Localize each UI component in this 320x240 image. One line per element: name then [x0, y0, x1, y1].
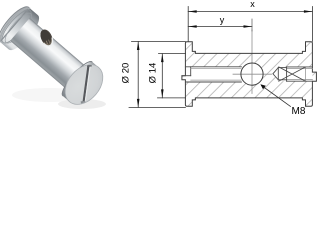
centerline horizontal: [233, 73, 272, 75]
centerline vertical: [251, 30, 253, 94]
bore band white: [185, 67, 251, 82]
svg-text:Ø 20: Ø 20: [121, 63, 132, 84]
section drawing: [129, 7, 316, 108]
y dim right ext stub: [251, 19, 253, 31]
photo of sleeve part: [0, 3, 110, 112]
bore thread crest lines: [191, 68, 241, 70]
shadow: [12, 88, 88, 102]
dimension y: [188, 26, 252, 28]
big head cylinder side: [63, 62, 99, 102]
thread hole white: [273, 68, 278, 80]
part silhouette hatched: [182, 42, 317, 106]
svg-text:M8: M8: [292, 106, 306, 117]
junction ring: [66, 66, 89, 92]
part outline: [182, 42, 317, 106]
head face lines across hole: [305, 67, 307, 81]
dim 20: [137, 42, 139, 108]
cross hole circle white: [241, 63, 263, 85]
svg-text:x: x: [250, 0, 255, 9]
svg-text:y: y: [220, 15, 225, 25]
cross hole: [38, 28, 55, 48]
dim 14: [161, 54, 163, 98]
thread cross lines: [279, 67, 306, 81]
barrel: [10, 18, 88, 91]
right hole thread crest lines: [287, 68, 313, 70]
cross hole circle: [241, 63, 263, 85]
bore lines: [185, 66, 241, 68]
far head (back): [0, 3, 44, 55]
extension lines top: [187, 7, 189, 42]
slot on face (screen coords, clipped to face): [81, 61, 92, 106]
leader M8: [262, 86, 291, 107]
big head face: [58, 57, 111, 111]
dimension x: [188, 11, 312, 13]
slot step in left head: [190, 67, 192, 76]
drill cone: [273, 68, 278, 80]
svg-text:Ø 14: Ø 14: [148, 63, 159, 84]
thread hole outline: [287, 66, 313, 68]
